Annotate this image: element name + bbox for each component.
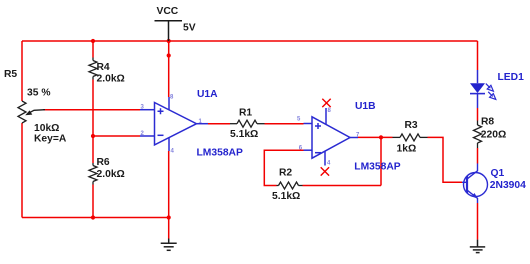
wire bottom rail xyxy=(22,217,169,219)
svg-text:LM358AP: LM358AP xyxy=(354,161,400,172)
minus sign xyxy=(158,134,164,136)
svg-text:5V: 5V xyxy=(183,23,196,34)
svg-text:R5: R5 xyxy=(4,69,17,80)
svg-text:Key=A: Key=A xyxy=(34,133,67,144)
junction dot feedback node xyxy=(379,135,383,139)
wire top rail to LED xyxy=(477,41,479,70)
pin 5 stub xyxy=(304,123,313,125)
svg-text:5.1kΩ: 5.1kΩ xyxy=(230,129,258,140)
svg-text:R8: R8 xyxy=(481,116,494,127)
wire R4 top xyxy=(92,41,94,58)
wire node to U1A pin2 xyxy=(93,135,140,137)
svg-text:U1B: U1B xyxy=(355,101,376,112)
transistor Q1 xyxy=(462,164,488,204)
pin 1 stub xyxy=(197,123,209,125)
resistor R2 xyxy=(277,182,303,189)
ground symbol left xyxy=(161,239,177,251)
power VCC symbol xyxy=(155,21,183,41)
svg-text:220Ω: 220Ω xyxy=(481,130,506,141)
svg-text:LED1: LED1 xyxy=(498,72,525,83)
junction dot VCC on top rail xyxy=(167,39,171,43)
wire R6 top xyxy=(92,136,94,163)
wire left rail upper xyxy=(21,41,23,101)
LED emission arrow 1 xyxy=(486,84,491,89)
base stub xyxy=(462,181,467,183)
pin 4 stub U1B xyxy=(324,151,326,166)
collector arm xyxy=(467,164,477,179)
op-amp U1A xyxy=(140,97,208,151)
svg-text:VCC: VCC xyxy=(157,6,179,17)
pin 3 stub xyxy=(140,109,155,111)
wire U1A output to R1 xyxy=(208,123,230,125)
junction dot ground rail xyxy=(167,215,171,219)
pin 6 stub xyxy=(304,149,313,151)
ground symbol right xyxy=(470,240,485,253)
pin 8 stub xyxy=(168,97,170,110)
wire U1B pin7 to node xyxy=(358,136,393,138)
wire Q1 emitter to ground xyxy=(477,203,479,240)
plus sign xyxy=(158,108,164,114)
svg-text:LM358AP: LM358AP xyxy=(197,147,243,158)
svg-text:2.0kΩ: 2.0kΩ xyxy=(97,169,125,180)
svg-text:2N3904: 2N3904 xyxy=(490,180,526,191)
base bar xyxy=(466,176,468,193)
no-connect X top U1B xyxy=(322,99,330,107)
svg-text:R1: R1 xyxy=(239,108,252,119)
svg-text:R2: R2 xyxy=(279,167,292,178)
resistor R6 xyxy=(89,163,97,185)
svg-text:U1A: U1A xyxy=(197,89,218,100)
junction dot below VCC xyxy=(167,53,171,57)
wire VCC stem to U1A pin8 xyxy=(168,41,170,97)
resistor R1 xyxy=(230,120,265,127)
emitter arrowhead xyxy=(472,193,478,199)
wire feedback R2 right xyxy=(303,185,382,187)
op-amp U1B xyxy=(304,108,359,166)
pin 2 stub xyxy=(140,135,155,137)
wire feedback R2 left corner xyxy=(264,150,303,185)
wire R6 bottom xyxy=(92,185,94,218)
LED LED1 xyxy=(470,70,496,108)
junction dot R4 R6 pin2 node xyxy=(91,134,95,138)
svg-text:R4: R4 xyxy=(97,62,110,73)
wire R1 to U1B pin5 xyxy=(265,123,304,125)
resistor R3 xyxy=(393,134,428,141)
wire R4 bottom to node xyxy=(92,80,94,137)
junction dot R4 top xyxy=(91,39,95,43)
svg-text:5.1kΩ: 5.1kΩ xyxy=(272,191,300,202)
svg-text:R3: R3 xyxy=(405,120,418,131)
svg-text:R6: R6 xyxy=(97,157,110,168)
resistor R4 xyxy=(89,58,97,80)
wire left rail lower xyxy=(21,123,23,218)
pin 8 stub U1B xyxy=(325,108,327,124)
wire pot wiper to U1A pin3 xyxy=(43,109,140,111)
wire top rail xyxy=(22,40,478,42)
plus sign U1B xyxy=(315,123,321,129)
no-connect X bottom U1B xyxy=(321,167,329,175)
wire R3 to Q1 base xyxy=(428,137,463,182)
LED emission arrow 2 xyxy=(488,92,493,97)
wire LED to R8 xyxy=(477,108,479,121)
svg-text:2.0kΩ: 2.0kΩ xyxy=(97,74,125,85)
minus sign U1B xyxy=(315,152,321,154)
potentiometer R5 body xyxy=(18,101,26,123)
emitter arm xyxy=(467,190,477,203)
pin 4 stub xyxy=(168,137,170,151)
svg-text:35 %: 35 % xyxy=(27,87,50,98)
wire R8 to Q1 collector xyxy=(477,148,479,164)
junction dot R6 bottom rail xyxy=(91,215,95,219)
wire U1A pin4 to ground xyxy=(168,151,170,239)
wire feedback down from node xyxy=(380,137,382,185)
svg-text:Q1: Q1 xyxy=(491,168,505,179)
resistor R8 xyxy=(474,121,482,149)
pin 7 stub xyxy=(350,137,358,139)
svg-text:1kΩ: 1kΩ xyxy=(397,143,417,154)
svg-text:10kΩ: 10kΩ xyxy=(34,123,59,134)
potentiometer R5 wiper arrow xyxy=(29,110,46,114)
